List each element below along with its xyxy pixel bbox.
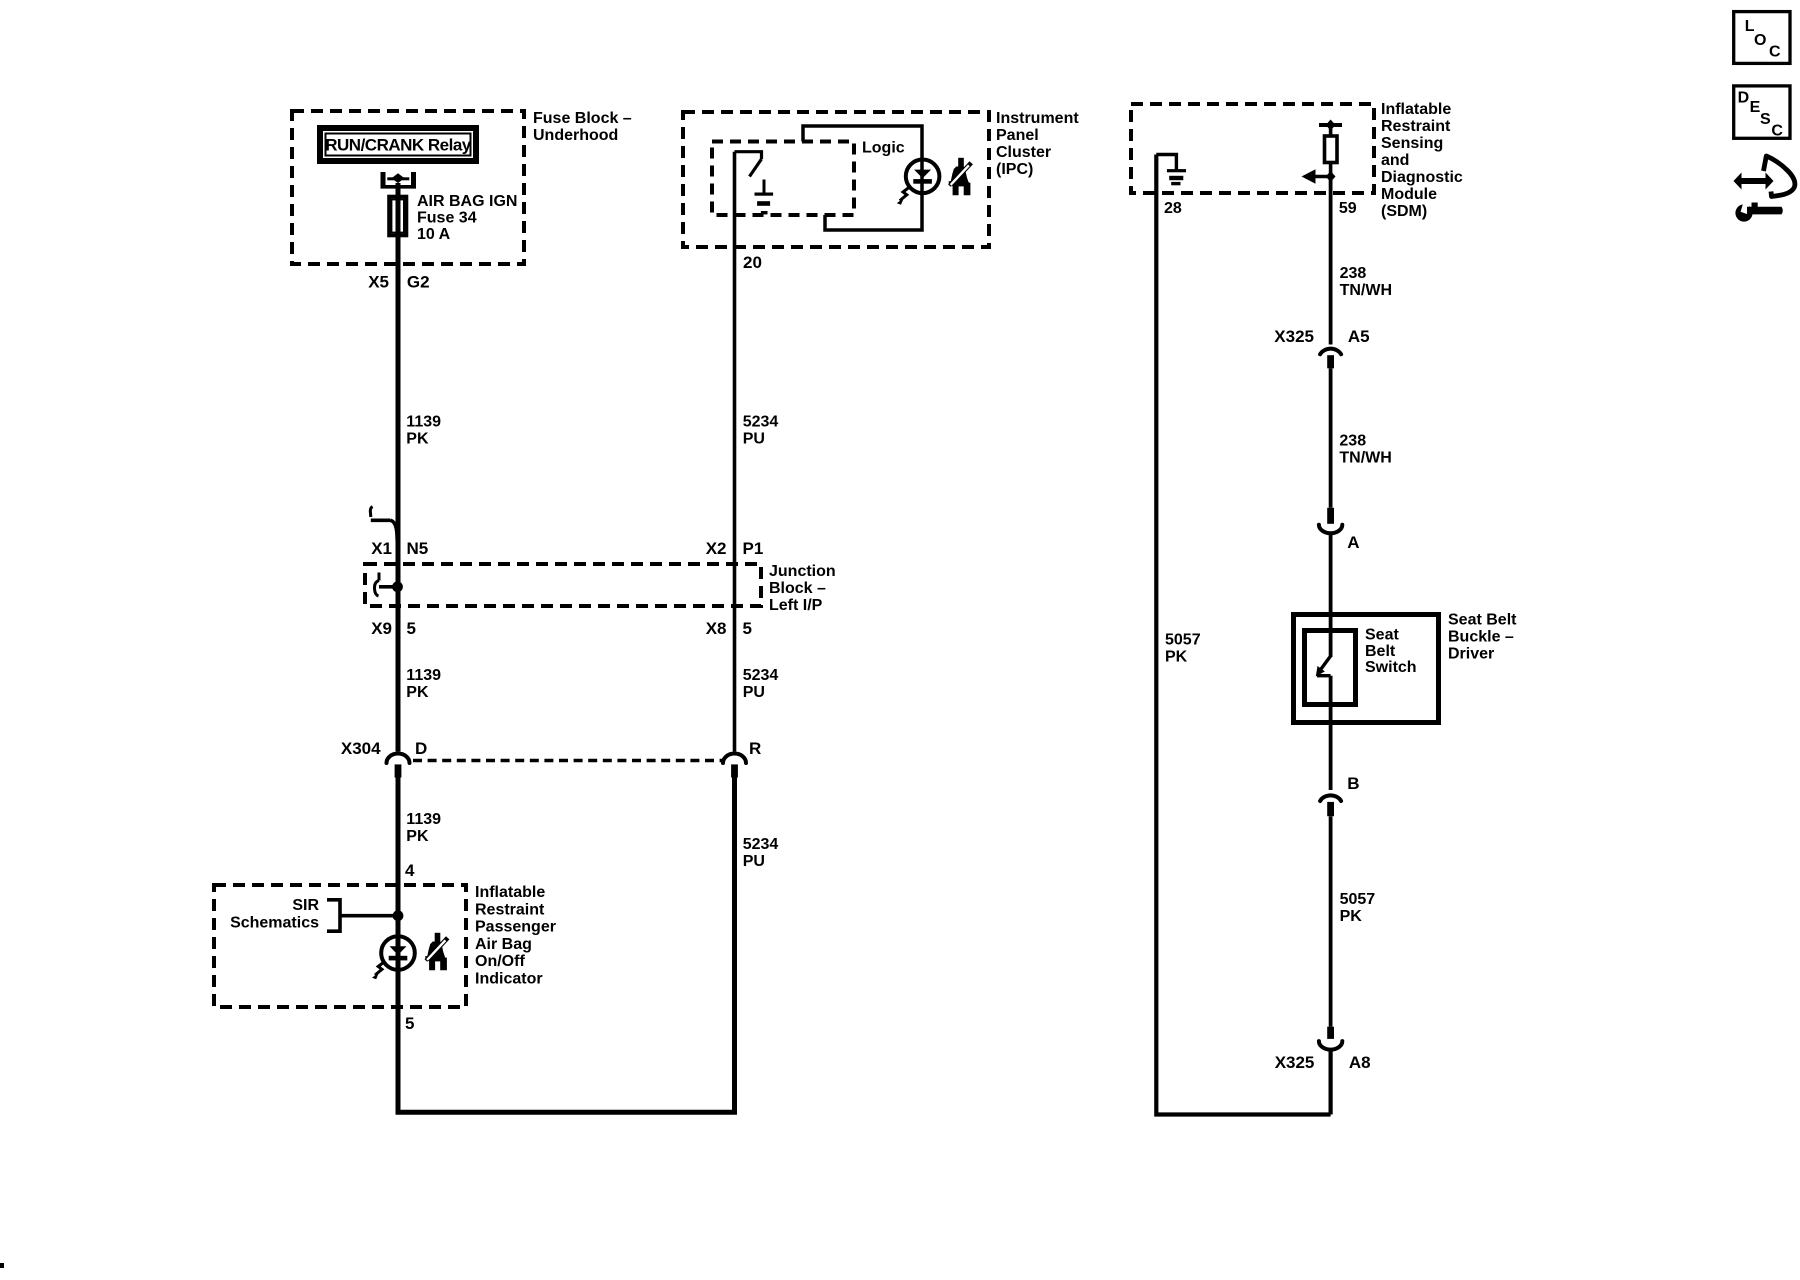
svg-text:Logic: Logic xyxy=(862,140,905,157)
lightning arrow IPC indicator xyxy=(897,187,910,205)
svg-text:S: S xyxy=(1760,111,1771,128)
svg-text:Sensing: Sensing xyxy=(1381,135,1443,152)
svg-text:D: D xyxy=(415,739,427,758)
svg-text:E: E xyxy=(1750,99,1761,116)
wire from A8 to bottom xyxy=(1328,1050,1332,1115)
svg-text:20: 20 xyxy=(743,253,762,272)
seat belt icon SIR xyxy=(425,933,450,970)
connector body dashed link D to R xyxy=(413,759,722,763)
wire label 5234 PU (3) xyxy=(743,836,779,870)
wire label 5234 PU (2) xyxy=(743,667,779,701)
SIR schematics dashed box xyxy=(214,885,466,1007)
svg-text:5: 5 xyxy=(743,619,752,638)
svg-text:Restraint: Restraint xyxy=(1381,118,1451,135)
svg-text:Air Bag: Air Bag xyxy=(475,936,532,953)
svg-text:Left I/P: Left I/P xyxy=(769,597,823,614)
wire 238 TN/WH lower segment xyxy=(1329,368,1333,508)
svg-text:Belt: Belt xyxy=(1365,643,1396,660)
svg-text:A: A xyxy=(1347,533,1359,552)
junction block left I/P dashed box xyxy=(365,564,761,606)
svg-text:5234: 5234 xyxy=(743,667,779,684)
wire from relay to fuse xyxy=(396,183,401,196)
svg-text:X325: X325 xyxy=(1275,1053,1315,1072)
wire 1139 PK lower segment + bottom connection xyxy=(398,778,735,1113)
IPC switch xyxy=(735,152,762,177)
relay RUN/CRANK Relay xyxy=(320,128,476,161)
seat belt switch blade xyxy=(1316,656,1331,677)
svg-text:4: 4 xyxy=(405,861,415,880)
svg-text:Inflatable: Inflatable xyxy=(1381,101,1451,118)
connector X304 D labels xyxy=(341,739,427,758)
seat belt buckle driver box xyxy=(1294,615,1439,723)
svg-text:G2: G2 xyxy=(407,273,430,292)
svg-text:X304: X304 xyxy=(341,739,381,758)
svg-text:1139: 1139 xyxy=(406,811,441,828)
svg-text:5234: 5234 xyxy=(743,836,779,853)
svg-text:Fuse 34: Fuse 34 xyxy=(417,210,477,227)
svg-text:A8: A8 xyxy=(1349,1053,1371,1072)
svg-text:PK: PK xyxy=(406,828,429,845)
svg-text:Driver: Driver xyxy=(1448,646,1494,663)
svg-text:P1: P1 xyxy=(743,539,764,558)
svg-text:238: 238 xyxy=(1339,433,1366,450)
logic dashed box xyxy=(712,142,854,216)
wire 238 TN/WH upper segment xyxy=(1329,177,1333,345)
svg-text:AIR BAG IGN: AIR BAG IGN xyxy=(417,193,517,210)
junction block label xyxy=(769,563,836,614)
svg-text:28: 28 xyxy=(1164,200,1182,217)
junction node on indicator wire xyxy=(393,910,404,921)
svg-text:X2: X2 xyxy=(706,539,727,558)
wire label 5057 PK left xyxy=(1165,632,1201,666)
svg-text:TN/WH: TN/WH xyxy=(1340,282,1392,299)
indicator label xyxy=(475,884,556,988)
svg-text:PU: PU xyxy=(743,431,765,448)
IPC indicator LED xyxy=(906,160,940,194)
svg-text:B: B xyxy=(1347,774,1359,793)
svg-text:X325: X325 xyxy=(1274,327,1314,346)
wire label 5057 PK right xyxy=(1340,891,1376,925)
fuse block underhood dashed box xyxy=(292,111,524,264)
svg-text:X5: X5 xyxy=(368,273,389,292)
SDM arrow to left xyxy=(1302,162,1336,184)
connector X5 G2 labels xyxy=(368,273,429,292)
svg-text:1139: 1139 xyxy=(406,414,441,431)
svg-text:C: C xyxy=(1769,44,1781,61)
service info icon arrows and wrench xyxy=(1734,156,1795,222)
svg-text:Buckle –: Buckle – xyxy=(1448,629,1514,646)
seat belt icon IPC xyxy=(948,158,973,195)
svg-text:X8: X8 xyxy=(706,619,727,638)
svg-text:Diagnostic: Diagnostic xyxy=(1381,169,1463,186)
svg-text:Fuse Block –: Fuse Block – xyxy=(533,110,632,127)
svg-text:(IPC): (IPC) xyxy=(996,161,1033,178)
svg-text:Passenger: Passenger xyxy=(475,919,556,936)
wire 5057 PK right segment xyxy=(1329,816,1333,1026)
svg-text:PK: PK xyxy=(406,684,429,701)
page speck xyxy=(0,1263,4,1268)
svg-text:PU: PU xyxy=(743,853,765,870)
svg-text:Seat: Seat xyxy=(1365,627,1399,644)
indicator LED passenger air bag xyxy=(381,936,415,970)
svg-text:Module: Module xyxy=(1381,186,1437,203)
connector R half xyxy=(723,754,746,778)
connector X325 A5 labels xyxy=(1274,327,1369,346)
connector X2 P1 labels xyxy=(706,539,764,558)
connector X9 hook with junction dot xyxy=(374,573,402,597)
fuse block underhood label xyxy=(533,110,632,144)
SDM resistor xyxy=(1325,136,1338,163)
svg-text:X9: X9 xyxy=(371,619,392,638)
svg-text:X1: X1 xyxy=(371,539,392,558)
svg-text:Cluster: Cluster xyxy=(996,144,1051,161)
SIR bracket xyxy=(327,900,394,931)
svg-text:5057: 5057 xyxy=(1340,891,1376,908)
SDM internal ground xyxy=(1156,155,1186,186)
svg-text:5234: 5234 xyxy=(743,414,779,431)
svg-text:Restraint: Restraint xyxy=(475,901,545,918)
svg-text:PK: PK xyxy=(1340,908,1363,925)
svg-text:10 A: 10 A xyxy=(417,226,451,243)
svg-text:Indicator: Indicator xyxy=(475,971,543,988)
SIR schematics label xyxy=(230,897,319,932)
fuse F34 AIR BAG IGN 10A xyxy=(389,196,406,237)
svg-text:(SDM): (SDM) xyxy=(1381,203,1427,220)
seat belt switch label xyxy=(1365,627,1417,677)
logic solid outline xyxy=(803,126,922,230)
connector A xyxy=(1319,508,1342,533)
svg-text:D: D xyxy=(1738,89,1750,106)
IPC outer dashed box xyxy=(683,112,989,247)
svg-text:TN/WH: TN/WH xyxy=(1339,450,1391,467)
DESC reference box xyxy=(1734,86,1790,140)
wire label 238 TN/WH (1) xyxy=(1340,265,1392,299)
svg-text:1139: 1139 xyxy=(406,667,441,684)
svg-text:59: 59 xyxy=(1339,200,1357,217)
connector X325 A8 labels xyxy=(1275,1053,1371,1072)
svg-text:Underhood: Underhood xyxy=(533,127,618,144)
connector B xyxy=(1320,795,1341,816)
svg-text:C: C xyxy=(1771,123,1783,140)
connector X325 A8 xyxy=(1319,1027,1342,1050)
seat belt switch box xyxy=(1305,631,1356,705)
svg-text:Switch: Switch xyxy=(1365,659,1417,676)
lightning arrow SIR indicator xyxy=(372,962,385,980)
wire label 1139 PK (3) xyxy=(406,811,441,845)
svg-text:PU: PU xyxy=(743,684,765,701)
IPC label xyxy=(996,110,1079,178)
wire 1139 PK from fuse through X5/G2 xyxy=(396,237,401,752)
svg-text:PK: PK xyxy=(406,431,429,448)
seat belt buckle label xyxy=(1448,612,1517,663)
svg-text:Block –: Block – xyxy=(769,580,826,597)
fuse label xyxy=(417,193,517,243)
SDM label xyxy=(1381,101,1463,220)
connector X8 pin 5 labels xyxy=(706,619,752,638)
svg-text:and: and xyxy=(1381,152,1409,169)
wire label 1139 PK (2) xyxy=(406,667,441,701)
svg-text:On/Off: On/Off xyxy=(475,953,525,970)
wire into seat belt buckle xyxy=(1329,534,1333,657)
svg-text:SIR: SIR xyxy=(292,897,319,914)
connector X325 A5 xyxy=(1320,349,1341,369)
svg-text:O: O xyxy=(1754,32,1766,49)
svg-text:PK: PK xyxy=(1165,649,1188,666)
connector X1 hook xyxy=(370,507,397,547)
svg-text:Panel: Panel xyxy=(996,127,1039,144)
svg-text:Inflatable: Inflatable xyxy=(475,884,545,901)
relay output terminal xyxy=(381,172,417,189)
wire label 1139 PK (1) xyxy=(406,414,441,448)
wire label 5234 PU (1) xyxy=(743,414,779,448)
svg-text:5057: 5057 xyxy=(1165,632,1201,649)
connector X304 D half xyxy=(387,754,410,778)
wire label 238 TN/WH (2) xyxy=(1339,433,1391,467)
svg-text:Seat Belt: Seat Belt xyxy=(1448,612,1517,629)
svg-text:N5: N5 xyxy=(407,539,429,558)
wire 5057 PK left leg from pin 28 xyxy=(1156,155,1330,1115)
svg-text:Schematics: Schematics xyxy=(230,915,319,932)
SDM resistor branch top T-bar xyxy=(1319,120,1342,137)
svg-text:5: 5 xyxy=(405,1014,414,1033)
SDM dashed box xyxy=(1131,104,1374,193)
svg-text:5: 5 xyxy=(407,619,416,638)
LOC reference box xyxy=(1734,12,1790,64)
svg-text:238: 238 xyxy=(1340,265,1367,282)
connector X1 N5 labels xyxy=(371,539,428,558)
IPC ground xyxy=(755,180,774,215)
connector X9 pin 5 labels xyxy=(371,619,416,638)
svg-text:Junction: Junction xyxy=(769,563,836,580)
svg-text:R: R xyxy=(749,739,761,758)
svg-text:A5: A5 xyxy=(1348,327,1370,346)
wire 5234 PU from IPC down to R xyxy=(733,152,737,752)
svg-text:RUN/CRANK Relay: RUN/CRANK Relay xyxy=(325,136,472,155)
svg-text:Instrument: Instrument xyxy=(996,110,1079,127)
wire from switch to B xyxy=(1329,676,1333,790)
